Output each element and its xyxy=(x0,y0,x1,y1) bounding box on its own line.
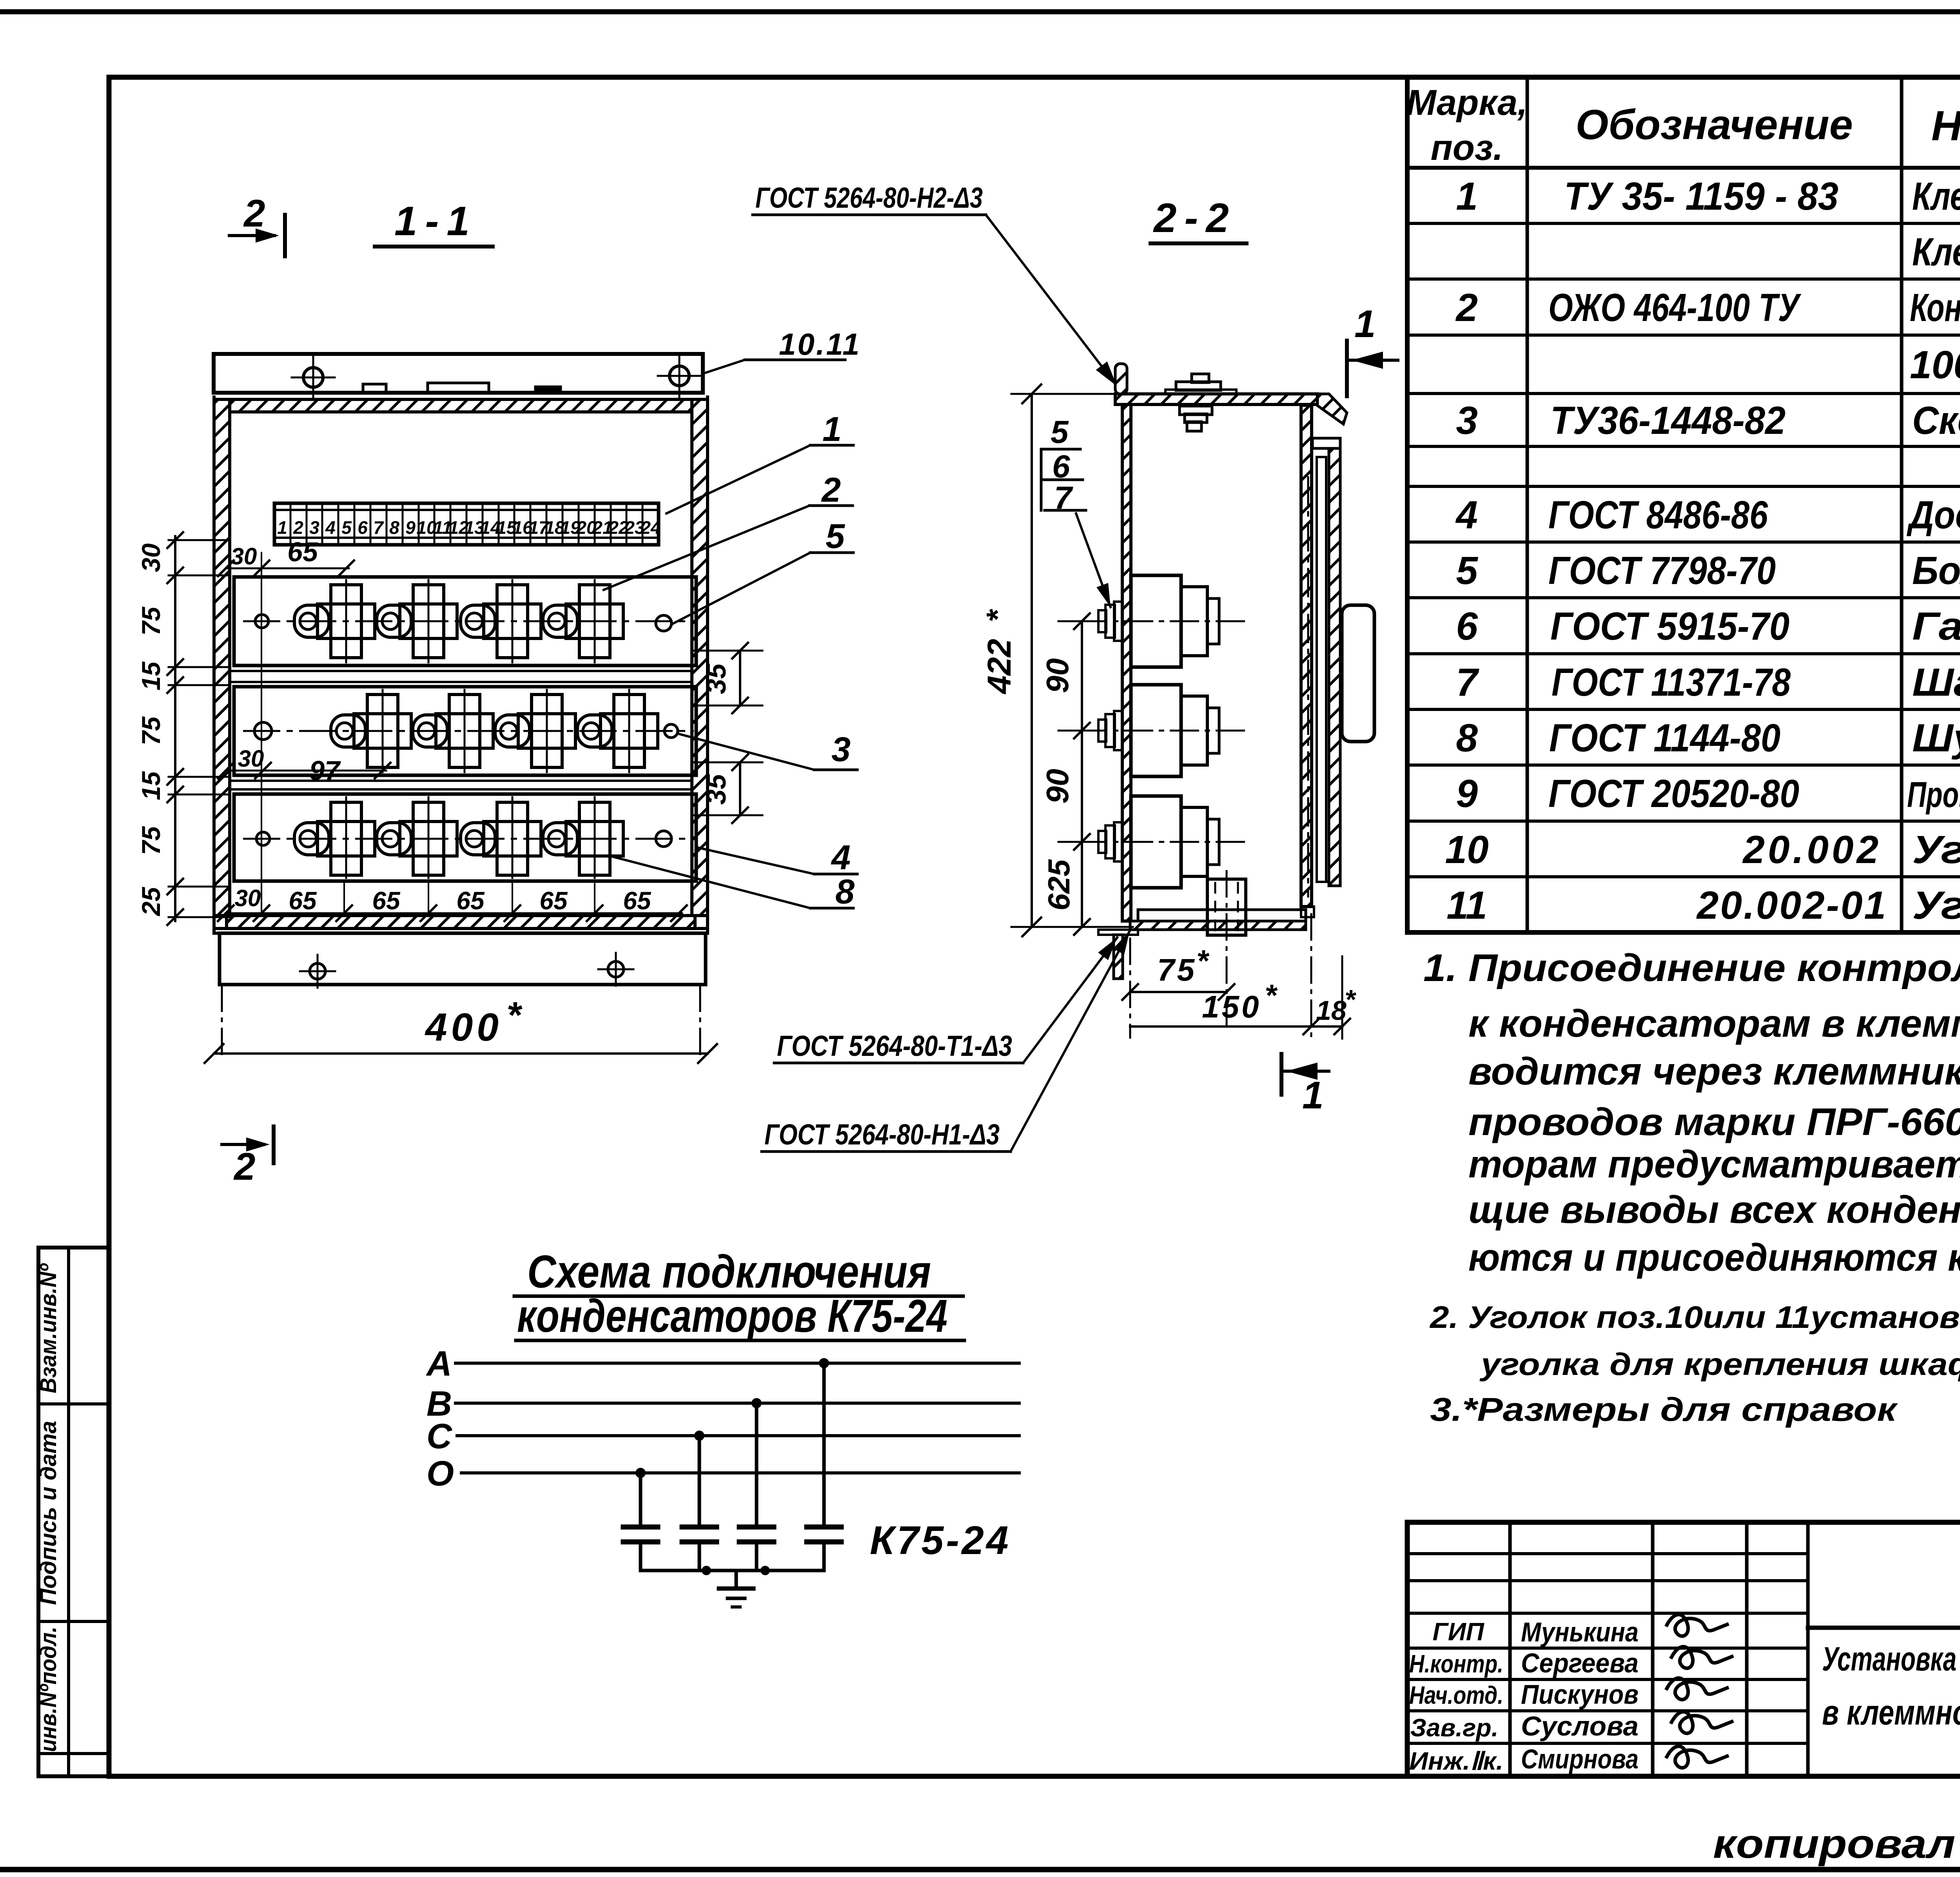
svg-text:2-2: 2-2 xyxy=(1153,195,1237,241)
svg-text:в клеммной шкаф ШК-24: в клеммной шкаф ШК-24 xyxy=(1822,1693,1960,1732)
svg-text:10.11: 10.11 xyxy=(779,327,861,361)
svg-text:ГОСТ 5264-80-Т1-Δ3: ГОСТ 5264-80-Т1-Δ3 xyxy=(777,1030,1012,1062)
svg-text:поз.: поз. xyxy=(1431,128,1503,168)
svg-text:422: 422 xyxy=(981,639,1018,695)
svg-text:90: 90 xyxy=(1040,769,1075,804)
svg-text:75: 75 xyxy=(136,606,165,636)
svg-text:торам предусматривается пайк: торам предусматривается пайкой. Заземляю… xyxy=(1468,1143,1960,1186)
svg-text:О: О xyxy=(426,1454,454,1493)
svg-text:Мунькина: Мунькина xyxy=(1521,1617,1639,1647)
svg-text:65: 65 xyxy=(287,537,318,567)
svg-text:9: 9 xyxy=(1456,772,1478,816)
svg-text:65: 65 xyxy=(539,887,568,915)
svg-text:25: 25 xyxy=(136,887,165,917)
svg-text:6: 6 xyxy=(1456,604,1478,648)
svg-text:1-1: 1-1 xyxy=(394,198,477,244)
svg-text:75: 75 xyxy=(1157,952,1197,987)
svg-text:К75-24: К75-24 xyxy=(870,1518,1011,1563)
svg-text:Взам.инв.Nº: Взам.инв.Nº xyxy=(36,1263,61,1393)
svg-text:3: 3 xyxy=(831,730,851,769)
svg-text:ГОСТ 5264-80-Н1-Δ3: ГОСТ 5264-80-Н1-Δ3 xyxy=(764,1118,1000,1151)
svg-text:конденсаторов К75-24: конденсаторов К75-24 xyxy=(517,1290,947,1342)
svg-text:2: 2 xyxy=(1455,286,1478,330)
svg-text:6: 6 xyxy=(358,517,368,538)
svg-text:*: * xyxy=(1196,943,1210,978)
svg-text:ГОСТ 20520-80: ГОСТ 20520-80 xyxy=(1548,772,1799,816)
svg-text:3: 3 xyxy=(1456,399,1478,443)
svg-text:5: 5 xyxy=(341,517,352,538)
svg-text:Пискунов: Пискунов xyxy=(1521,1679,1639,1710)
svg-text:Уголок: Уголок xyxy=(1912,883,1960,927)
svg-text:8: 8 xyxy=(1456,716,1478,760)
svg-text:ются и присоединяются к бо: ются и присоединяются к болтам поз.5. xyxy=(1468,1236,1960,1279)
svg-text:проводов марки ПРГ-660 сеч.: проводов марки ПРГ-660 сеч. 1,5мм² к кон… xyxy=(1468,1100,1960,1143)
svg-text:ГОСТ 7798-70: ГОСТ 7798-70 xyxy=(1548,549,1776,593)
svg-text:90: 90 xyxy=(1040,658,1075,693)
svg-text:ГОСТ 5264-80-Н2-Δ3: ГОСТ 5264-80-Н2-Δ3 xyxy=(755,181,983,214)
svg-text:уголка для крепления шкафа: уголка для крепления шкафа xyxy=(1479,1347,1960,1382)
svg-text:4: 4 xyxy=(831,838,851,877)
svg-text:35: 35 xyxy=(701,663,731,694)
svg-text:30: 30 xyxy=(231,543,257,569)
svg-text:30: 30 xyxy=(238,745,264,772)
svg-text:Марка,: Марка, xyxy=(1406,83,1528,123)
svg-text:Суслова: Суслова xyxy=(1521,1711,1639,1741)
svg-text:7: 7 xyxy=(373,517,384,538)
svg-text:2: 2 xyxy=(233,1145,256,1188)
svg-text:100 В: 100 В xyxy=(1910,343,1960,387)
svg-text:20.002-01: 20.002-01 xyxy=(1696,883,1887,927)
svg-text:8: 8 xyxy=(835,872,855,911)
svg-text:ГИП: ГИП xyxy=(1432,1618,1485,1646)
svg-text:65: 65 xyxy=(289,887,317,915)
svg-text:15: 15 xyxy=(136,771,165,800)
svg-text:35: 35 xyxy=(701,774,731,805)
svg-text:5: 5 xyxy=(1456,549,1478,593)
svg-text:625: 625 xyxy=(1042,859,1076,910)
svg-text:9: 9 xyxy=(405,517,416,538)
svg-text:Подпись и дата: Подпись и дата xyxy=(36,1421,61,1605)
svg-text:щие выводы всех конденсатор: щие выводы всех конденсаторов перепаива- xyxy=(1468,1188,1960,1231)
svg-text:Болт М 12х60: Болт М 12х60 xyxy=(1912,549,1960,593)
svg-text:Провод ПРГ-660сеч. 1,5мм²: Провод ПРГ-660сеч. 1,5мм² xyxy=(1907,775,1960,815)
svg-text:ГОСТ 5915-70: ГОСТ 5915-70 xyxy=(1550,604,1789,648)
svg-text:Инж.Ⅱк.: Инж.Ⅱк. xyxy=(1409,1747,1503,1775)
svg-text:ТУ36-1448-82: ТУ36-1448-82 xyxy=(1550,399,1786,443)
svg-text:3: 3 xyxy=(309,517,319,538)
svg-text:150: 150 xyxy=(1202,989,1261,1024)
svg-text:Обозначение: Обозначение xyxy=(1575,101,1853,148)
svg-text:4: 4 xyxy=(325,517,336,538)
svg-text:65: 65 xyxy=(623,887,652,915)
svg-text:2. Уголок поз.10или 11установ: 2. Уголок поз.10или 11установить взамен … xyxy=(1429,1300,1960,1335)
svg-text:1: 1 xyxy=(277,517,287,538)
svg-text:Клеммный шкаф на 24: Клеммный шкаф на 24 xyxy=(1912,174,1960,218)
svg-text:Гайка М12: Гайка М12 xyxy=(1912,604,1960,648)
svg-text:5: 5 xyxy=(1051,414,1069,450)
svg-text:копировал Филатова формат А3: копировал Филатова формат А3 xyxy=(1713,1821,1960,1867)
svg-text:10: 10 xyxy=(1445,828,1488,872)
svg-text:Наименование: Наименование xyxy=(1931,102,1960,149)
svg-text:15: 15 xyxy=(136,661,165,691)
svg-text:11: 11 xyxy=(1446,883,1487,927)
svg-text:18: 18 xyxy=(1316,995,1347,1026)
svg-text:1. Присоединение контрольных к: 1. Присоединение контрольных кабелей и п… xyxy=(1423,946,1960,989)
svg-text:20.002: 20.002 xyxy=(1742,828,1882,872)
svg-text:2: 2 xyxy=(821,470,841,509)
svg-text:С: С xyxy=(426,1417,453,1456)
svg-text:30: 30 xyxy=(136,543,165,572)
svg-text:ГОСТ 8486-86: ГОСТ 8486-86 xyxy=(1548,493,1768,537)
svg-text:Сергеева: Сергеева xyxy=(1521,1648,1639,1678)
svg-text:1: 1 xyxy=(822,410,842,448)
svg-text:Н.контр.: Н.контр. xyxy=(1409,1650,1503,1678)
svg-text:8: 8 xyxy=(389,517,399,538)
svg-text:1: 1 xyxy=(1456,174,1478,218)
svg-text:Установка конденсаторовК75-24: Установка конденсаторовК75-24 xyxy=(1822,1640,1960,1678)
svg-text:Уголок: Уголок xyxy=(1912,828,1960,872)
svg-text:А: А xyxy=(426,1344,452,1384)
svg-text:к конденсаторам в клеммном шка: к конденсаторам в клеммном шкафу ШК-24 п… xyxy=(1468,1002,1960,1045)
svg-text:3.*Размеры для справок: 3.*Размеры для справок xyxy=(1430,1391,1898,1428)
svg-text:водится через клеммник. При: водится через клеммник. Присоединение ме… xyxy=(1468,1050,1960,1093)
svg-text:1: 1 xyxy=(1354,302,1376,345)
svg-text:75: 75 xyxy=(136,716,165,745)
svg-text:*: * xyxy=(980,609,1015,622)
svg-text:65: 65 xyxy=(372,887,401,915)
svg-text:2: 2 xyxy=(293,517,303,538)
svg-text:1: 1 xyxy=(1302,1074,1324,1117)
svg-text:ОЖО 464-100 ТУ: ОЖО 464-100 ТУ xyxy=(1548,286,1802,330)
svg-text:30: 30 xyxy=(235,885,261,911)
svg-text:7: 7 xyxy=(1456,660,1479,704)
svg-text:Шуруп 5х35: Шуруп 5х35 xyxy=(1912,716,1960,760)
svg-text:Доска 40х75; ℓ=0,37м: Доска 40х75; ℓ=0,37м xyxy=(1906,493,1960,537)
svg-text:Скоба К252У2: Скоба К252У2 xyxy=(1912,399,1960,443)
svg-text:*: * xyxy=(1345,984,1356,1015)
svg-text:75: 75 xyxy=(136,826,165,855)
svg-text:Нач.отд.: Нач.отд. xyxy=(1409,1681,1503,1709)
svg-text:Клеммы ШК-24: Клеммы ШК-24 xyxy=(1912,230,1960,274)
svg-text:4: 4 xyxy=(1455,493,1478,537)
svg-text:*: * xyxy=(1265,978,1278,1012)
svg-text:400: 400 xyxy=(425,1005,503,1049)
svg-text:Шайба 12: Шайба 12 xyxy=(1912,660,1960,704)
svg-text:инв.Nºподл.: инв.Nºподл. xyxy=(36,1627,61,1752)
svg-text:ТУ 35- 1159 - 83: ТУ 35- 1159 - 83 xyxy=(1564,174,1838,218)
svg-text:97: 97 xyxy=(309,755,341,786)
svg-text:Смирнова: Смирнова xyxy=(1521,1744,1639,1774)
svg-text:КонденсаторК75-24 0,47: КонденсаторК75-24 0,47 xyxy=(1910,286,1960,330)
svg-text:*: * xyxy=(506,994,523,1036)
svg-text:ГОСТ 11371-78: ГОСТ 11371-78 xyxy=(1552,660,1791,704)
svg-text:ГОСТ 1144-80: ГОСТ 1144-80 xyxy=(1549,716,1780,760)
svg-text:65: 65 xyxy=(456,887,485,915)
svg-text:5: 5 xyxy=(826,517,845,555)
svg-text:Зав.гр.: Зав.гр. xyxy=(1410,1714,1499,1742)
svg-text:24: 24 xyxy=(640,517,661,538)
svg-text:2: 2 xyxy=(243,192,265,235)
